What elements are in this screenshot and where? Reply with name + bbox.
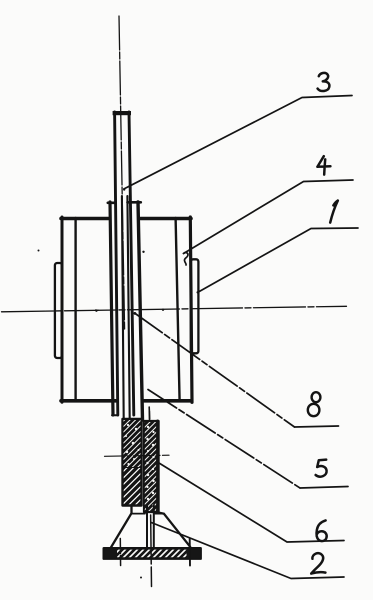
body inner line right xyxy=(176,218,180,401)
leader 4 xyxy=(184,180,354,254)
leader 2 xyxy=(151,523,344,579)
shaft tube 3 xyxy=(113,111,131,115)
stand top edges xyxy=(132,513,165,515)
right bearing cap 1 xyxy=(191,259,199,353)
speck dots xyxy=(38,250,40,252)
hatched bushing right column 6 xyxy=(144,421,159,512)
bolt axis right xyxy=(189,539,191,567)
sleeve collar 4 xyxy=(110,202,113,415)
rod stub above bushing xyxy=(148,407,150,419)
body inner line left xyxy=(74,218,76,401)
numeral 3 xyxy=(318,73,330,91)
left bearing cap xyxy=(55,263,62,358)
numeral 1 xyxy=(330,201,338,223)
stand left slant xyxy=(110,506,131,549)
base plate 2 xyxy=(104,548,201,558)
leader 3 xyxy=(124,96,352,190)
small horizontal centerline xyxy=(105,455,170,456)
leader 1 xyxy=(198,228,359,293)
leader 8 xyxy=(135,313,295,427)
numeral 5 xyxy=(316,460,327,477)
numeral 4 xyxy=(317,156,330,174)
numeral 8 xyxy=(312,392,321,402)
hatched bushing left column xyxy=(123,419,142,506)
vertical centerline top xyxy=(119,16,125,330)
numeral 6 xyxy=(316,520,326,541)
inner rod 8 xyxy=(122,196,124,419)
numeral 2 xyxy=(311,553,325,573)
motor body outline xyxy=(61,217,191,221)
leader start blobs xyxy=(123,188,125,190)
bolt axis left xyxy=(119,539,121,567)
horizontal centerline xyxy=(2,306,347,312)
vertical centerline bottom xyxy=(149,411,151,587)
stand right slant xyxy=(159,513,190,547)
stem lines xyxy=(146,505,148,549)
leader 6 xyxy=(159,463,344,542)
leader 5 xyxy=(148,390,300,489)
centerline arrow dot xyxy=(96,310,99,312)
